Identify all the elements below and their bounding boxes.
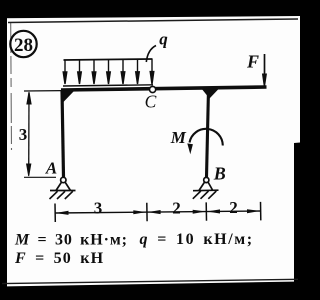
svg-text:M = 30 кН·м;: M = 30 кН·м; bbox=[14, 232, 128, 249]
moment M arrowhead bbox=[187, 143, 193, 154]
force F arrow bbox=[263, 54, 267, 88]
scanner black strip right bbox=[294, 143, 300, 300]
svg-text:3: 3 bbox=[94, 199, 103, 218]
distributed load arrows bbox=[63, 59, 154, 84]
svg-text:B: B bbox=[213, 164, 226, 184]
support A triangle bbox=[56, 182, 71, 191]
column B (right vertical member) bbox=[207, 89, 209, 177]
support A hatching bbox=[50, 191, 73, 199]
svg-text:C: C bbox=[145, 92, 157, 112]
bottom dimension line bbox=[55, 211, 261, 213]
moment M arc bbox=[190, 129, 223, 146]
problem number badge circle 28 bbox=[10, 31, 36, 57]
card border bottom bbox=[2, 279, 298, 283]
svg-text:A: A bbox=[45, 159, 57, 178]
svg-text:2: 2 bbox=[229, 198, 238, 217]
dimension ticks bbox=[55, 202, 261, 222]
svg-text:q: q bbox=[159, 30, 168, 49]
column A (left vertical member) bbox=[62, 90, 64, 177]
support B triangle bbox=[199, 182, 213, 191]
scanner black strip left bbox=[0, 0, 7, 300]
beam (horizontal member) bbox=[61, 87, 267, 90]
scanner black band top bbox=[0, 0, 300, 18]
scanner black band bottom bbox=[0, 282, 300, 300]
fillet at A corner bbox=[61, 90, 75, 105]
left end extension line bbox=[24, 90, 62, 92]
svg-text:F: F bbox=[246, 52, 259, 72]
support A pin circle bbox=[61, 177, 66, 182]
hinge C circle bbox=[150, 86, 156, 92]
vertical dimension line 3 bbox=[27, 92, 32, 176]
load base line bbox=[63, 85, 153, 86]
fillet at B top bbox=[201, 88, 220, 99]
card border top bbox=[8, 19, 298, 23]
support B pin circle bbox=[204, 177, 209, 182]
svg-text:q = 10 кН/м;: q = 10 кН/м; bbox=[140, 231, 254, 248]
svg-text:M: M bbox=[170, 128, 187, 147]
label q leader line bbox=[146, 46, 156, 63]
distributed load q top bar bbox=[64, 59, 153, 60]
svg-text:2: 2 bbox=[172, 199, 181, 218]
support A level extension line bbox=[24, 176, 56, 178]
svg-text:28: 28 bbox=[14, 35, 33, 56]
support B hatching bbox=[193, 191, 217, 199]
svg-text:F = 50 кН: F = 50 кН bbox=[14, 250, 104, 267]
card border left bbox=[10, 23, 13, 150]
support B ground line bbox=[193, 189, 219, 192]
svg-text:3: 3 bbox=[19, 125, 28, 144]
support A ground line bbox=[50, 190, 76, 192]
dimension arrowheads bbox=[56, 209, 261, 215]
